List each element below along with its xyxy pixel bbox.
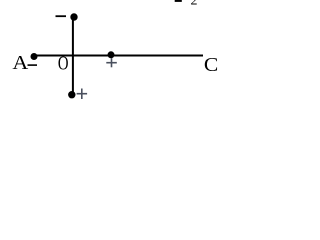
plus sign below axis right of O [106,58,117,67]
horizontal axis wire A-O-C [33,55,203,57]
node dot right of O on axis [108,51,115,58]
cut-off bar of label at top edge [175,0,182,2]
svg-text:O: O [58,53,69,75]
vertical axis wire through O [72,17,74,96]
node dot at top of vertical axis [70,13,77,20]
minus sign after label A [28,64,38,66]
minus sign left of top dot [56,15,67,17]
svg-text:2: 2 [191,0,198,9]
svg-text:C: C [204,54,218,76]
svg-text:A: A [12,52,28,74]
node dot at bottom of vertical axis [68,91,75,98]
plus sign right of bottom dot [77,89,88,100]
node dot at A end [31,53,38,60]
